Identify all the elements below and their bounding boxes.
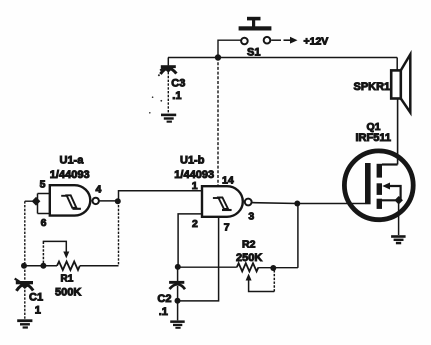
svg-text:.1: .1 — [172, 90, 181, 102]
wire: pin 7 to ground rail — [178, 217, 219, 301]
svg-text:SPKR1: SPKR1 — [354, 81, 391, 93]
wire: pin 5 lead — [38, 193, 50, 195]
wire: C2 node to R2 — [178, 266, 237, 268]
capacitor C1 — [15, 266, 34, 319]
svg-text:R1: R1 — [61, 274, 74, 285]
wire: U1-b output pin 3 to Q1 gate — [252, 202, 365, 205]
wire: pin4 junction down to R1 — [118, 201, 120, 266]
svg-text:7: 7 — [224, 222, 230, 234]
svg-text:500K: 500K — [55, 287, 81, 299]
svg-text:IRF511: IRF511 — [356, 132, 391, 144]
ground (below C1) — [17, 319, 32, 328]
svg-text:+12V: +12V — [304, 35, 329, 47]
svg-text:C1: C1 — [29, 292, 43, 304]
transistor Q1 (IRF511 MOSFET) — [344, 151, 413, 220]
svg-text:1: 1 — [35, 305, 41, 317]
resistor R1 — [57, 262, 80, 271]
wire: R2 right lead — [258, 267, 298, 269]
svg-text:U1-a: U1-a — [60, 155, 85, 167]
node: top rail junction — [215, 54, 221, 60]
wire: pin 6 lead — [38, 213, 50, 215]
svg-text:1: 1 — [192, 180, 198, 192]
svg-text:S1: S1 — [247, 47, 260, 59]
wire: junction down to R2 right — [297, 204, 299, 268]
R2 wiper arrow — [246, 274, 252, 281]
ground (below C2) — [170, 320, 185, 328]
ground (Q1 source) — [391, 235, 406, 244]
wire: R1 wiper loop — [42, 241, 44, 263]
svg-text:Q1: Q1 — [367, 121, 381, 133]
wire: junction up to S1 left terminal — [218, 40, 241, 57]
+12V supply arrow — [284, 37, 298, 44]
ground (below C3) — [161, 114, 176, 123]
wire: +12V top rail — [168, 57, 397, 59]
svg-text:3: 3 — [248, 211, 254, 223]
svg-text:C2: C2 — [157, 293, 171, 305]
wire: pin 2 lead — [178, 214, 202, 267]
svg-text:.1: .1 — [159, 306, 168, 318]
node: C2 bottom junction — [175, 298, 181, 304]
op-amp U1-a (NAND gate 4093) — [50, 185, 99, 215]
wire: U1-a input tie — [37, 194, 39, 214]
svg-text:5: 5 — [40, 179, 46, 191]
node: R1 left — [21, 263, 27, 269]
node: R1 wiper tie — [40, 263, 46, 269]
node: R2 wiper tie — [270, 265, 276, 271]
wire: C2 to ground — [177, 301, 179, 321]
svg-text:C3: C3 — [171, 77, 185, 89]
svg-text:1/44093: 1/44093 — [50, 169, 90, 181]
svg-text:4: 4 — [96, 184, 102, 196]
wire: speaker to Q1 drain — [397, 99, 399, 165]
node: U1-a input junction — [32, 197, 41, 206]
svg-text:6: 6 — [41, 217, 47, 229]
wire: riser pin4 junction to U1-b pin 1 — [119, 191, 203, 202]
wire: R1 right lead — [80, 265, 119, 267]
svg-text:2: 2 — [192, 218, 198, 230]
node: pin 3 junction — [294, 201, 300, 207]
speaker SPKR1 — [391, 54, 410, 112]
switch S1 — [239, 17, 272, 45]
svg-text:1/44093: 1/44093 — [174, 169, 214, 181]
wire: U1-a output pin 4 — [99, 200, 118, 202]
wire: Q1 source to ground — [398, 200, 400, 235]
wire: down to C1/R1 node — [24, 201, 26, 266]
svg-text:R2: R2 — [242, 238, 256, 250]
resistor R2 — [237, 263, 259, 271]
capacitor C2 — [169, 267, 185, 301]
capacitor C3 — [160, 58, 176, 114]
wire: pin 14 supply lead — [217, 58, 219, 187]
wire: input jog to C1 branch — [25, 200, 36, 202]
wire: R1 bottom rail left — [24, 265, 57, 267]
wire: S1 right terminal dash — [271, 39, 281, 41]
op-amp U1-b (NAND gate 4093) — [202, 186, 252, 217]
svg-text:250K: 250K — [236, 252, 262, 264]
scan specks (noise marks near C3) — [149, 74, 162, 113]
svg-text:14: 14 — [222, 174, 234, 186]
node: pin4 junction — [115, 198, 121, 204]
node: C2 top junction — [175, 264, 181, 270]
wire: R2 wiper loop — [249, 280, 275, 292]
svg-text:U1-b: U1-b — [180, 154, 205, 166]
R1 wiper arrow — [63, 252, 69, 259]
